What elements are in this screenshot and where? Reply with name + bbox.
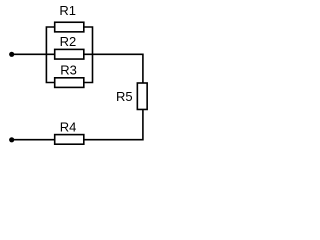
svg-text:R2: R2 xyxy=(60,34,77,49)
svg-text:R1: R1 xyxy=(59,3,76,18)
svg-text:R5: R5 xyxy=(116,89,133,104)
svg-text:R4: R4 xyxy=(60,119,77,134)
svg-text:R3: R3 xyxy=(60,62,77,77)
